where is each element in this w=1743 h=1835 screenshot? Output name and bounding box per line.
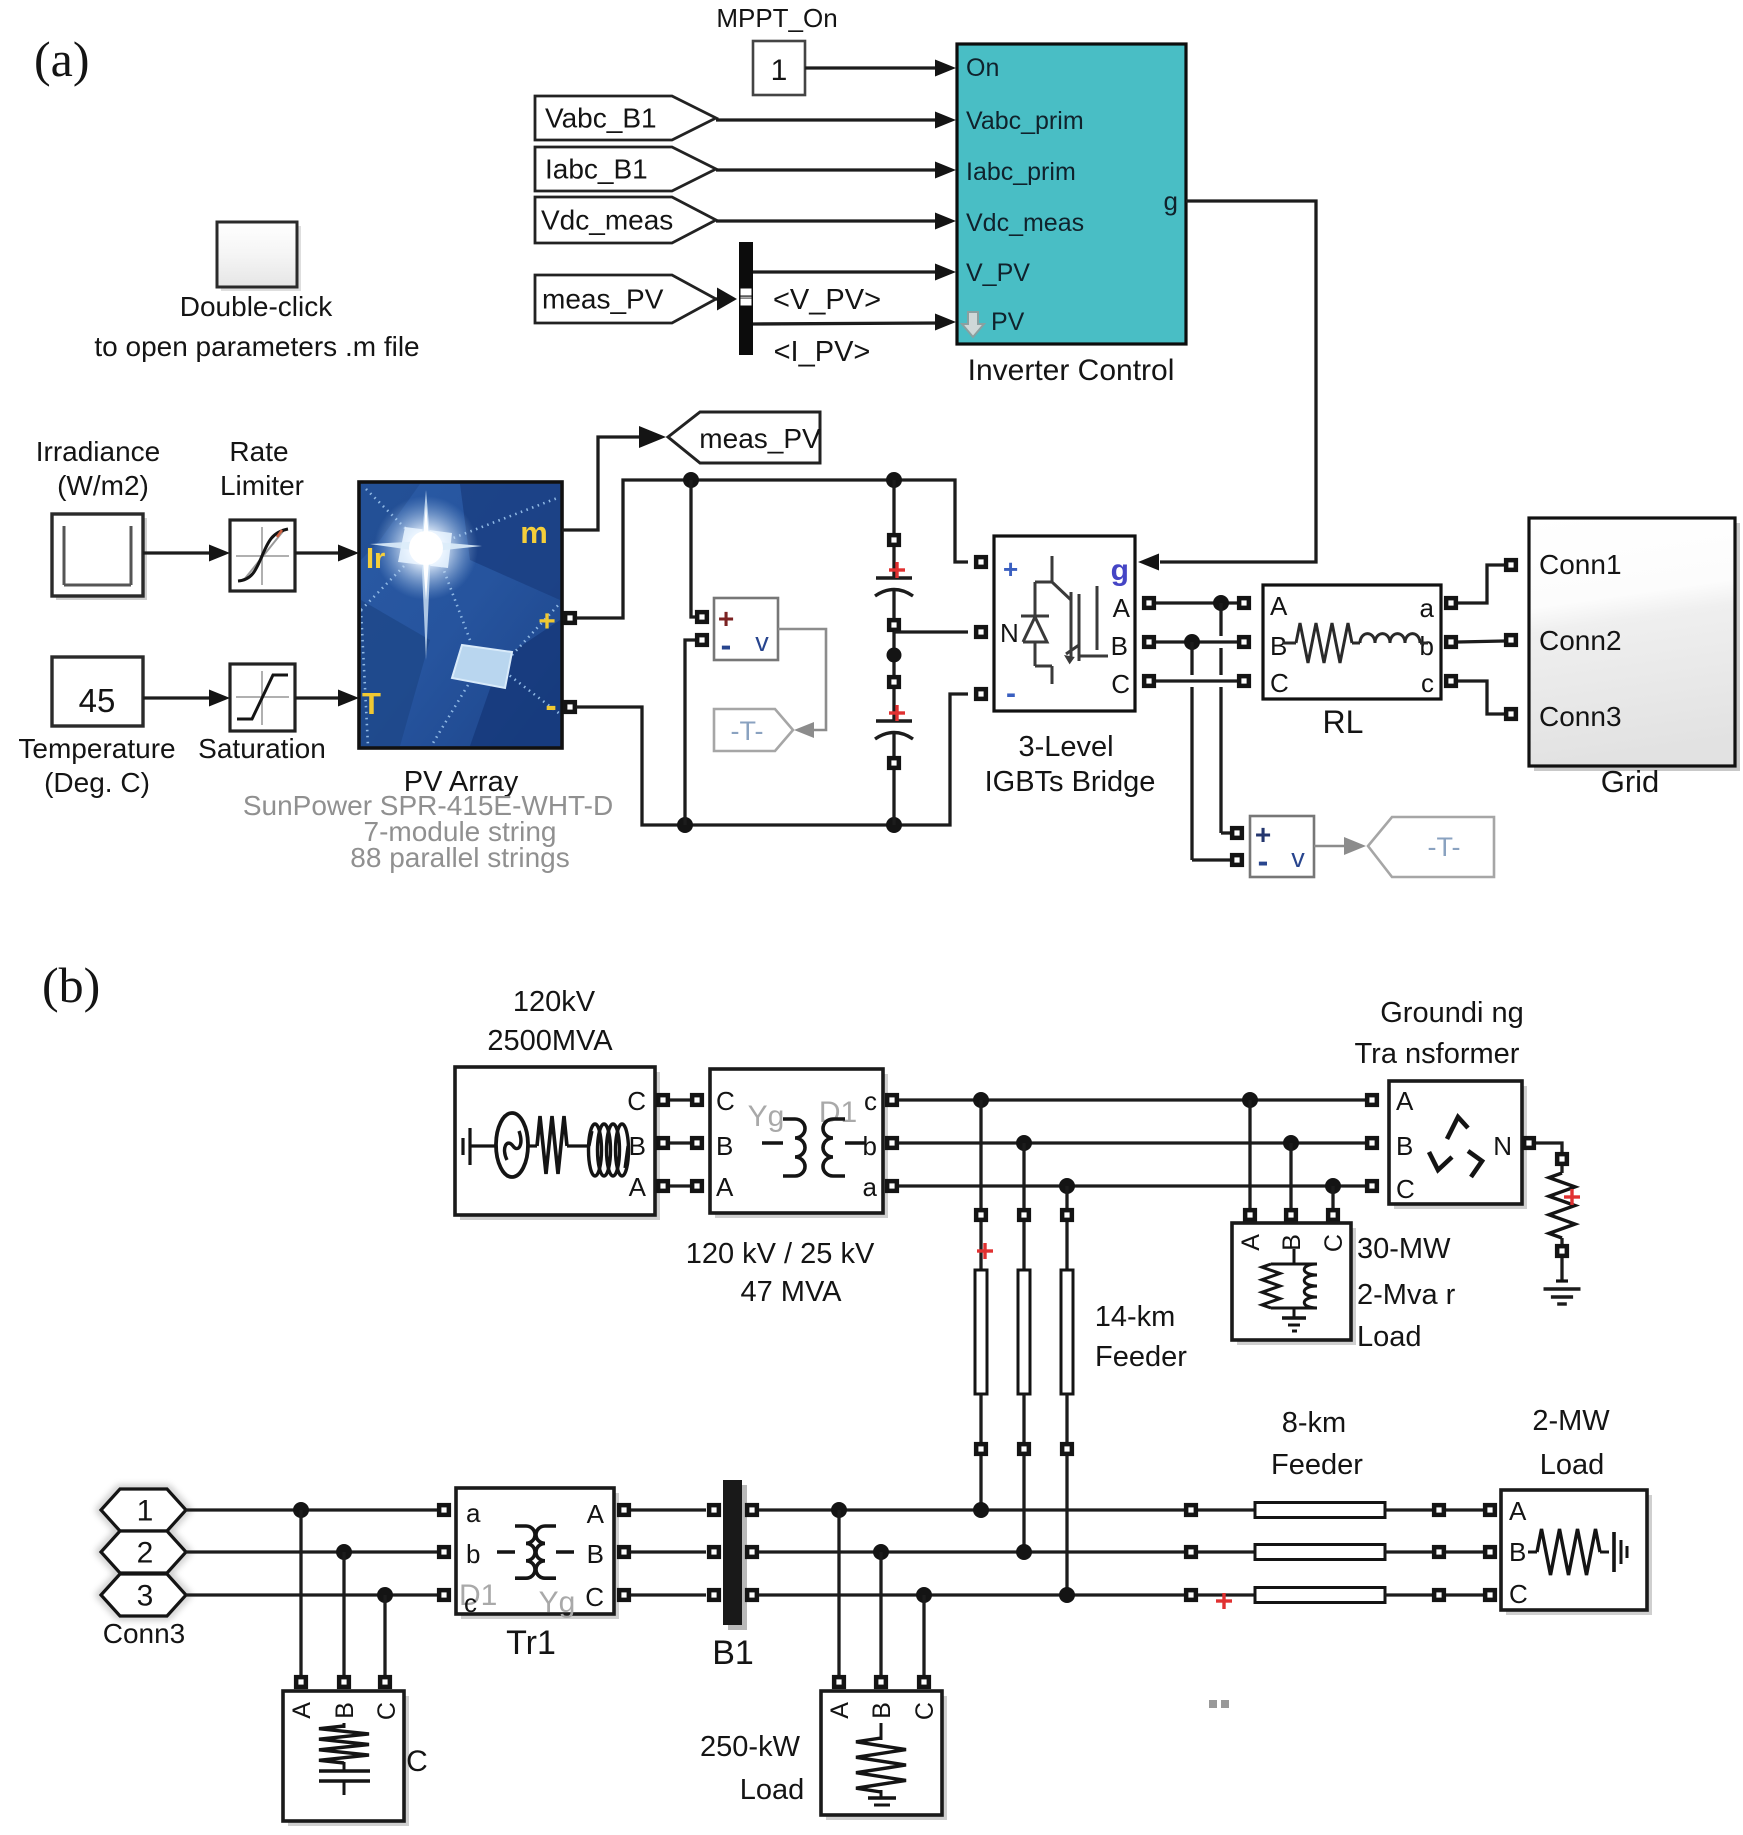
svg-text:3-Level: 3-Level [1018, 731, 1113, 763]
svg-text:B: B [868, 1702, 896, 1719]
svg-text:<V_PV>: <V_PV> [773, 284, 881, 316]
svg-text:to open parameters .m file: to open parameters .m file [94, 331, 419, 362]
svg-text:Inverter Control: Inverter Control [968, 354, 1175, 387]
svg-text:+: + [1003, 554, 1018, 584]
svg-text:1: 1 [137, 1495, 154, 1528]
svg-text:Tra nsformer: Tra nsformer [1355, 1038, 1520, 1070]
svg-text:2500MVA: 2500MVA [487, 1025, 613, 1057]
svg-text:(Deg. C): (Deg. C) [44, 767, 150, 798]
svg-text:8-km: 8-km [1282, 1407, 1346, 1439]
svg-text:Yg: Yg [748, 1100, 785, 1133]
svg-text:30-MW: 30-MW [1357, 1233, 1451, 1265]
svg-text:-: - [721, 627, 732, 663]
svg-text:Feeder: Feeder [1095, 1341, 1187, 1373]
svg-text:Tr1: Tr1 [506, 1624, 556, 1662]
svg-text:b: b [466, 1539, 480, 1569]
svg-text:Iabc_prim: Iabc_prim [966, 158, 1076, 186]
svg-text:A: A [1113, 593, 1131, 623]
svg-text:Conn3: Conn3 [1539, 701, 1622, 732]
svg-text:T: T [362, 686, 381, 721]
svg-text:B: B [587, 1539, 604, 1569]
svg-text:C: C [1320, 1234, 1348, 1252]
svg-text:B: B [1270, 631, 1287, 661]
svg-text:Conn1: Conn1 [1539, 549, 1622, 580]
svg-text:a: a [466, 1498, 481, 1528]
svg-text:c: c [1421, 668, 1434, 698]
svg-text:1: 1 [771, 54, 788, 87]
svg-text:14-km: 14-km [1095, 1301, 1176, 1333]
svg-text:3: 3 [137, 1580, 154, 1613]
svg-text:B: B [1278, 1234, 1306, 1251]
svg-text:88 parallel strings: 88 parallel strings [350, 842, 569, 873]
svg-text:Vdc_meas: Vdc_meas [541, 205, 673, 236]
svg-text:45: 45 [79, 682, 116, 719]
svg-text:b: b [1420, 631, 1434, 661]
svg-text:(a): (a) [34, 31, 90, 87]
svg-text:Load: Load [740, 1774, 805, 1806]
svg-text:C: C [716, 1086, 735, 1116]
svg-text:Load: Load [1357, 1321, 1422, 1353]
svg-text:A: A [587, 1499, 605, 1529]
svg-text:B: B [331, 1702, 359, 1719]
svg-text:+: + [538, 605, 556, 638]
svg-text:MPPT_On: MPPT_On [716, 3, 837, 33]
svg-text:c: c [864, 1086, 877, 1116]
svg-text:A: A [629, 1172, 647, 1202]
svg-text:Limiter: Limiter [220, 470, 304, 501]
svg-text:A: A [1509, 1496, 1527, 1526]
svg-text:A: A [716, 1172, 734, 1202]
svg-text:Grid: Grid [1601, 764, 1660, 799]
svg-text:Load: Load [1540, 1449, 1605, 1481]
svg-text:250-kW: 250-kW [700, 1731, 801, 1763]
svg-text:a: a [1420, 593, 1435, 623]
svg-text:C: C [1270, 668, 1289, 698]
svg-text:Vabc_B1: Vabc_B1 [545, 103, 657, 134]
svg-text:(b): (b) [42, 957, 100, 1013]
svg-text:Rate: Rate [229, 436, 288, 467]
svg-text:Irradiance: Irradiance [36, 436, 161, 467]
svg-text:B: B [716, 1131, 733, 1161]
svg-text:A: A [1270, 591, 1288, 621]
svg-text:2-MW: 2-MW [1532, 1405, 1610, 1437]
svg-text:g: g [1164, 186, 1178, 216]
svg-text:Conn2: Conn2 [1539, 625, 1622, 656]
svg-text:N: N [1493, 1131, 1512, 1161]
svg-text:C: C [1396, 1174, 1415, 1204]
svg-text:g: g [1111, 554, 1129, 587]
svg-text:C: C [911, 1702, 939, 1720]
svg-text:RL: RL [1323, 704, 1364, 740]
svg-text:m: m [520, 515, 548, 550]
svg-text:(W/m2): (W/m2) [57, 470, 149, 501]
svg-text:Iabc_B1: Iabc_B1 [545, 154, 648, 185]
svg-text:C: C [627, 1086, 646, 1116]
svg-text:Conn3: Conn3 [103, 1618, 186, 1649]
svg-text:Vabc_prim: Vabc_prim [966, 107, 1084, 135]
svg-text:C: C [585, 1582, 604, 1612]
svg-text:2: 2 [137, 1537, 154, 1570]
svg-text:On: On [966, 54, 999, 82]
svg-text:120kV: 120kV [513, 986, 596, 1018]
svg-text:47 MVA: 47 MVA [740, 1276, 842, 1308]
svg-text:meas_PV: meas_PV [699, 423, 821, 454]
svg-text:A: A [288, 1702, 316, 1719]
svg-text:-: - [545, 687, 556, 725]
svg-text:v: v [1291, 843, 1305, 873]
svg-text:V_PV: V_PV [966, 259, 1030, 287]
svg-text:A: A [1396, 1086, 1414, 1116]
svg-text:B1: B1 [712, 1634, 754, 1672]
svg-text:Double-click: Double-click [180, 291, 333, 322]
svg-text:C: C [406, 1745, 428, 1778]
svg-text:v: v [755, 627, 769, 657]
svg-text:b: b [863, 1131, 877, 1161]
svg-text:meas_PV: meas_PV [542, 284, 664, 315]
svg-text:N: N [1000, 618, 1019, 648]
svg-text:Ir: Ir [366, 543, 385, 575]
svg-text:Yg: Yg [539, 1586, 576, 1619]
svg-text:2-Mva r: 2-Mva r [1357, 1279, 1456, 1311]
svg-text:<I_PV>: <I_PV> [774, 336, 871, 368]
svg-text:a: a [863, 1172, 878, 1202]
svg-text:C: C [1111, 669, 1130, 699]
svg-text:Feeder: Feeder [1271, 1449, 1363, 1481]
svg-text:B: B [1396, 1131, 1413, 1161]
svg-text:A: A [1237, 1234, 1265, 1251]
svg-text:Temperature: Temperature [18, 733, 175, 764]
svg-text:B: B [1509, 1537, 1526, 1567]
svg-text:120 kV / 25 kV: 120 kV / 25 kV [686, 1238, 875, 1270]
svg-text:Vdc_meas: Vdc_meas [966, 209, 1084, 237]
svg-text:-: - [1006, 677, 1016, 710]
svg-text:B: B [629, 1131, 646, 1161]
svg-text:IGBTs Bridge: IGBTs Bridge [985, 766, 1156, 798]
svg-text:-: - [1258, 843, 1269, 879]
svg-text:c: c [464, 1588, 477, 1618]
svg-text:-T-: -T- [731, 716, 764, 746]
svg-text:C: C [373, 1702, 401, 1720]
svg-text:Groundi ng: Groundi ng [1380, 997, 1524, 1029]
svg-text:C: C [1509, 1579, 1528, 1609]
svg-text:-T-: -T- [1428, 832, 1461, 862]
svg-text:Saturation: Saturation [198, 733, 326, 764]
svg-text:A: A [826, 1702, 854, 1719]
svg-text:PV: PV [991, 308, 1025, 336]
svg-text:B: B [1111, 631, 1128, 661]
